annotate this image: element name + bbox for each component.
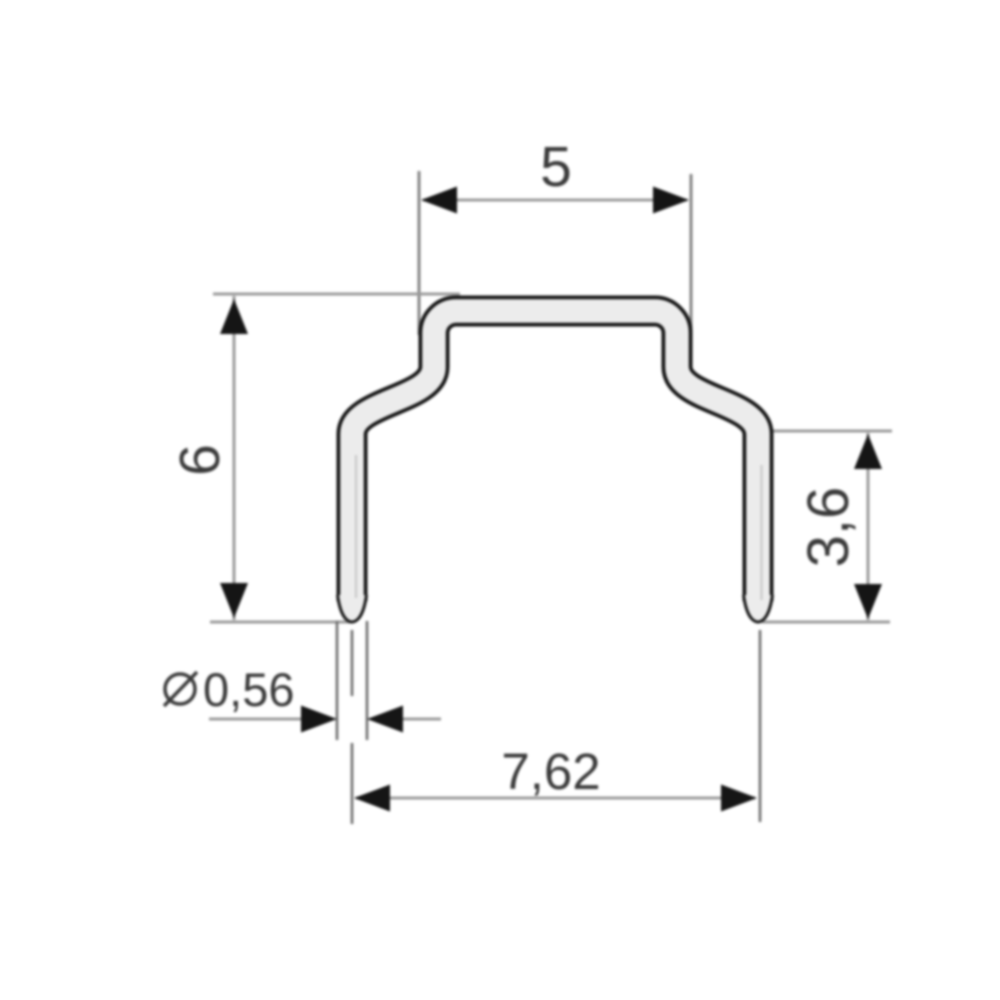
dimension line 7,62 [356,797,755,800]
svg-text:0,56: 0,56 [203,663,294,716]
extension line bottom of dim 3,6 [762,621,890,624]
svg-text:3,6: 3,6 [796,487,861,568]
staple wire outer outline [352,311,758,601]
extension line left of dim 0,56 [336,621,339,740]
arrow right of dim 5 [653,187,689,214]
svg-text:6: 6 [168,444,232,476]
faint inner contour line right leg [760,465,762,600]
extension line right of dim 7,62 [759,630,762,822]
left leg tapered tip [338,595,367,622]
diameter symbol of label 0,56 [164,672,197,706]
arrow pointing right at 0,56 [301,706,337,733]
extension line left of dim 7,62 lower segment [351,743,354,824]
dimension line 5 [423,199,687,202]
arrow right of dim 7,62 [721,785,757,812]
extension line right of dim 5 [690,174,693,335]
arrow top of dim 3,6 [854,434,882,469]
dimension line 3,6 [867,433,870,620]
extension line right of dim 0,56 [366,621,369,740]
extension line bottom of dim 6 [210,621,352,624]
faint inner contour line left leg [355,455,357,598]
dimension line 6 [233,296,236,620]
arrow pointing left at 0,56 [367,706,403,733]
dimension line left part of 0,56 [209,718,305,721]
arrow left of dim 5 [421,187,457,214]
dimension line right part of 0,56 [399,718,441,721]
extension line left of dim 5 [418,171,421,335]
arrow bottom of dim 6 [220,583,248,618]
staple wire light interior [352,311,758,601]
extension line left of dim 7,62 upper segment [351,630,354,696]
svg-text:5: 5 [540,135,572,199]
right leg tapered tip [744,595,773,622]
arrow bottom of dim 3,6 [854,584,882,619]
extension line top of dim 6 [213,293,460,296]
arrow top of dim 6 [220,299,248,334]
svg-text:7,62: 7,62 [501,743,600,800]
extension line top of dim 3,6 [744,430,892,433]
arrow left of dim 7,62 [354,785,390,812]
